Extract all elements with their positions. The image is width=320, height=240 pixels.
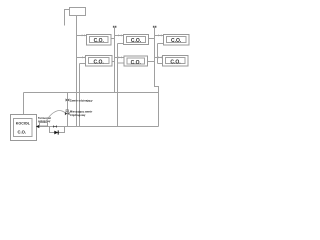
svg-text:C.O.: C.O. — [94, 59, 105, 65]
wire return stub radiator 4 — [80, 63, 86, 65]
radiator 5 C.O. — [124, 56, 148, 66]
wire riser C return — [157, 44, 159, 64]
svg-text:C.O.: C.O. — [131, 60, 142, 66]
svg-text:pokojowy: pokojowy — [38, 119, 51, 123]
wire bypass loop — [50, 127, 65, 133]
air vent V2 — [153, 26, 157, 31]
svg-text:Zawór odcinający: Zawór odcinający — [70, 98, 93, 102]
wire return stub radiator 2 right — [149, 38, 155, 40]
wire thermostat control link — [46, 110, 66, 122]
mixing valve ZM with actuator — [65, 110, 70, 115]
wire boiler supply riser — [23, 93, 25, 115]
radiator 3 C.O. — [164, 35, 190, 46]
wire return stub radiator 1 right — [111, 38, 115, 40]
wire supply stub radiator 2 — [115, 35, 124, 37]
radiator valve Z6 — [158, 56, 161, 58]
wire return stub radiator 2 — [118, 43, 124, 45]
wire supply stub radiator 3 — [155, 35, 164, 37]
svg-text:C.O.: C.O. — [171, 38, 182, 44]
wire return stub radiator 6 — [158, 63, 163, 65]
wire return stub radiator 4 right — [112, 61, 115, 63]
radiator 6 C.O. — [163, 56, 189, 67]
radiator valve Z5 — [119, 56, 122, 58]
radiator 1 C.O. — [87, 35, 112, 46]
radiator valve Z3 — [158, 34, 161, 36]
svg-text:C.O.: C.O. — [94, 38, 105, 44]
valve on return main — [53, 125, 57, 128]
radiator valve Z4 — [82, 56, 85, 58]
pump P1 on bypass — [54, 130, 58, 134]
wire riser B supply — [114, 31, 116, 93]
shutoff valve ZO on mixing branch — [66, 98, 70, 101]
wire bottom return main — [37, 126, 159, 128]
radiator valve Z2 — [118, 34, 121, 36]
wire return stub radiator 3 — [158, 43, 164, 45]
radiator 4 C.O. — [86, 56, 113, 67]
radiator valve Z1 — [82, 34, 85, 36]
svg-text:KOCIOŁ: KOCIOŁ — [16, 122, 31, 126]
check valve arrow into boiler — [36, 125, 39, 128]
wire riser A return — [79, 64, 81, 127]
wire tank overflow bracket — [65, 10, 70, 26]
wire supply stub radiator 1 — [77, 35, 87, 37]
wire riser B return — [117, 44, 119, 127]
wire riser C supply — [155, 31, 159, 127]
boiler KOCIOL C.O. — [11, 115, 37, 141]
svg-text:C.O.: C.O. — [170, 59, 181, 65]
wire return stub radiator 5 right — [148, 61, 155, 63]
wire return stub radiator 5 — [118, 62, 125, 64]
wire riser A supply — [76, 16, 78, 127]
expansion tank — [70, 8, 86, 16]
air vent V1 — [113, 26, 117, 31]
wire mixing branch — [67, 93, 69, 127]
radiator 2 C.O. — [124, 35, 149, 45]
wire supply stub radiator 5 — [115, 57, 125, 59]
wire supply stub radiator 6 — [155, 57, 163, 59]
wire mid return main — [24, 92, 159, 94]
svg-text:trójdrogowy: trójdrogowy — [70, 113, 86, 117]
svg-text:C.O.: C.O. — [17, 130, 26, 135]
wire supply stub radiator 4 — [77, 57, 86, 59]
svg-text:C.O.: C.O. — [131, 38, 142, 44]
room thermostat — [40, 123, 48, 127]
